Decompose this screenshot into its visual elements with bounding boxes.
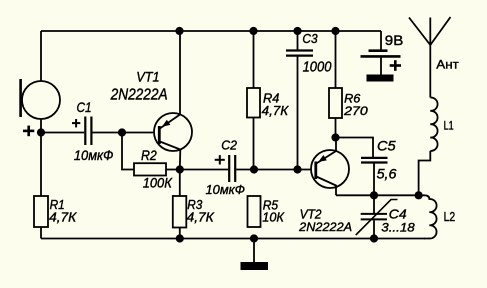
wire L1 bottom jog to tank node bbox=[419, 151, 431, 195]
capacitor C2 bbox=[229, 155, 235, 182]
capacitor C1 bbox=[85, 117, 91, 146]
svg-text:2N2222A: 2N2222A bbox=[110, 87, 168, 104]
wire ground stub bbox=[253, 239, 255, 263]
svg-text:5,6: 5,6 bbox=[377, 167, 397, 182]
wire microphone top riser bbox=[40, 31, 42, 81]
resistor R2 bbox=[134, 163, 166, 175]
wire VT2 emitter line bbox=[336, 194, 419, 196]
resistor R4 bbox=[247, 31, 260, 170]
svg-text:10К: 10К bbox=[262, 210, 285, 225]
microphone polarity + bbox=[23, 126, 34, 137]
node R5/ground (junction dot) bbox=[250, 234, 258, 242]
svg-text:VT1: VT1 bbox=[136, 69, 159, 85]
svg-text:4,7К: 4,7К bbox=[262, 103, 290, 118]
antenna bbox=[409, 17, 451, 98]
capacitor C3 bbox=[286, 31, 313, 170]
svg-text:C3: C3 bbox=[302, 31, 318, 46]
svg-text:C2: C2 bbox=[221, 138, 237, 153]
inductor L2 bbox=[419, 195, 437, 238]
wire C2 to VT2 base node bbox=[236, 169, 297, 171]
node VT1 emitter (junction dot) bbox=[176, 165, 184, 173]
svg-text:10мкФ: 10мкФ bbox=[74, 148, 114, 163]
node R6 at rail (junction dot) bbox=[331, 27, 339, 35]
svg-text:4,7К: 4,7К bbox=[49, 210, 78, 225]
ground (bottom) bbox=[241, 262, 269, 270]
label battery polarity + bbox=[390, 60, 401, 71]
svg-text:L1: L1 bbox=[444, 119, 454, 133]
svg-text:9В: 9В bbox=[385, 33, 404, 48]
resistor R5 bbox=[248, 196, 261, 227]
node R4 at rail (junction dot) bbox=[249, 27, 257, 35]
wire input node to C1 bbox=[41, 132, 84, 134]
transistor VT2 bbox=[298, 138, 350, 196]
wire bottom ground rail bbox=[41, 238, 425, 240]
label C2 polarity + bbox=[215, 155, 225, 164]
node R2 tap (junction dot) bbox=[118, 128, 126, 136]
svg-text:Ант: Ант bbox=[436, 57, 459, 71]
wire R6 node to C5 bbox=[336, 138, 374, 158]
wire microphone to input node bbox=[40, 119, 42, 133]
svg-text:C1: C1 bbox=[77, 100, 92, 115]
svg-text:100К: 100К bbox=[143, 175, 173, 190]
svg-text:R2: R2 bbox=[141, 148, 157, 163]
node R4/R5 (junction dot) bbox=[250, 165, 258, 173]
capacitor C4 (variable) bbox=[356, 195, 398, 238]
svg-text:C5: C5 bbox=[377, 138, 396, 153]
wire top supply rail bbox=[41, 30, 381, 32]
inductor L1 bbox=[430, 97, 437, 150]
wire emitter node to C2 bbox=[180, 169, 228, 171]
svg-text:270: 270 bbox=[343, 104, 368, 118]
microphone BM1 bbox=[19, 79, 60, 119]
resistor R6 bbox=[329, 31, 342, 138]
svg-text:4,7К: 4,7К bbox=[187, 210, 216, 225]
wire R2 to VT1 emitter node bbox=[166, 169, 180, 171]
transistor VT1 bbox=[154, 31, 192, 170]
label C1 polarity + bbox=[72, 119, 80, 127]
resistor R1 bbox=[34, 133, 48, 239]
ground (battery) bbox=[367, 75, 394, 82]
resistor R3 bbox=[173, 170, 187, 239]
node C3 at rail (junction dot) bbox=[293, 27, 301, 35]
svg-text:1000: 1000 bbox=[303, 60, 332, 76]
wire R2 tap down bbox=[122, 133, 134, 170]
node VT1 collector at rail (junction dot) bbox=[175, 27, 183, 35]
svg-text:2N2222A: 2N2222A bbox=[298, 220, 352, 234]
node input (junction dot) bbox=[37, 128, 45, 136]
capacitor C5 bbox=[361, 158, 388, 195]
node C5/C4 (junction dot) bbox=[370, 191, 378, 199]
node VT2 base (junction dot) bbox=[293, 165, 301, 173]
svg-text:C4: C4 bbox=[389, 206, 407, 221]
battery GB1 9V bbox=[361, 31, 401, 75]
wire C1 to VT1 base bbox=[93, 132, 160, 134]
svg-text:L2: L2 bbox=[444, 209, 456, 224]
node C4 bottom (junction dot) bbox=[370, 234, 378, 242]
node R3 bottom (junction dot) bbox=[176, 234, 184, 242]
svg-text:3...18: 3...18 bbox=[381, 220, 415, 234]
svg-text:10мкФ: 10мкФ bbox=[206, 182, 246, 197]
node tank (junction dot) bbox=[415, 191, 423, 199]
node R6/VT2 collector (junction dot) bbox=[331, 133, 339, 141]
